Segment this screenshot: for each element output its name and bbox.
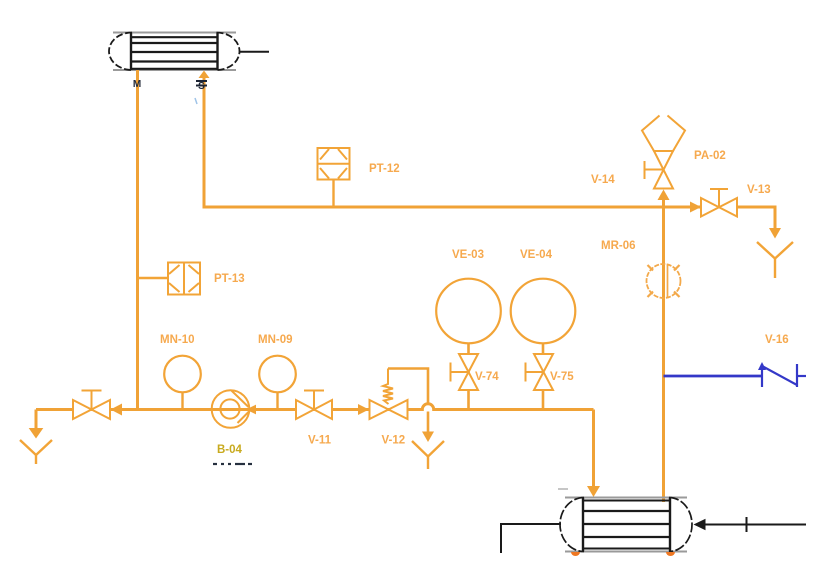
artifact grey dash bbox=[558, 488, 568, 490]
wire orange vertical x=663.5 PA-02 to bottom exchanger bbox=[662, 193, 665, 502]
arrow right into V-12 bbox=[358, 404, 369, 415]
valve PA-02 relief bbox=[642, 116, 685, 189]
drain Y left bbox=[20, 440, 52, 464]
svg-text:V-12: V-12 bbox=[382, 435, 406, 447]
wire orange vertical left x=137 bbox=[136, 70, 139, 410]
arrow left at pump outlet bbox=[246, 405, 256, 415]
instrument PT-13 bbox=[138, 263, 201, 295]
wire MN-10 stem bbox=[181, 392, 183, 409]
vessel VE-03 bbox=[436, 279, 501, 344]
valve V-12 with spring bbox=[370, 369, 408, 420]
valve hand left bbox=[73, 391, 110, 420]
svg-text:V-16: V-16 bbox=[765, 334, 789, 346]
svg-text:M: M bbox=[133, 79, 141, 90]
nameplate dashes under B-04 bbox=[213, 463, 252, 465]
valve V-11 bbox=[296, 391, 332, 420]
wire main bottom line with crossover bump bbox=[36, 404, 594, 410]
svg-text:V-14: V-14 bbox=[591, 174, 615, 186]
arrow down to V-13 drain bbox=[769, 228, 781, 239]
valve V-13 bbox=[701, 189, 737, 217]
arrow down into bottom exchanger bbox=[587, 486, 600, 497]
instrument PT-12 bbox=[318, 148, 350, 207]
wire V-12 bypass loop bbox=[388, 369, 428, 403]
arrow up into top exchanger bbox=[199, 71, 210, 79]
tick on black inlet bbox=[746, 517, 748, 532]
svg-text:MN-10: MN-10 bbox=[160, 334, 195, 346]
arrow right into V-13 bbox=[690, 202, 701, 213]
drain Y below V-13 bbox=[757, 242, 793, 278]
arrow down left drain bbox=[29, 428, 44, 439]
drain Y bypass bbox=[412, 441, 444, 469]
svg-text:PT-12: PT-12 bbox=[369, 163, 400, 175]
wire V-16 blue line bbox=[664, 375, 763, 378]
svg-text:V-74: V-74 bbox=[475, 371, 499, 383]
arrow black into bottom exchanger right bbox=[694, 519, 706, 531]
vessel VE-04 bbox=[511, 279, 576, 344]
svg-text:PT-13: PT-13 bbox=[214, 273, 245, 285]
valve V-75 bbox=[526, 354, 554, 390]
instrument MN-10 bbox=[164, 356, 201, 393]
pump B-04 bbox=[212, 390, 250, 428]
wire top main line y=207 bbox=[204, 206, 701, 209]
arrow down bypass drain bbox=[422, 432, 434, 443]
svg-text:MN-09: MN-09 bbox=[258, 334, 293, 346]
svg-text:V-11: V-11 bbox=[308, 435, 332, 447]
wire black inlet right of bottom exchanger bbox=[704, 524, 806, 526]
wire black outlet right of top exchanger bbox=[240, 51, 269, 53]
valve V-16 blue break symbol bbox=[758, 362, 806, 387]
wire VE-03 stem bbox=[467, 343, 470, 410]
heat exchanger E-bottom bbox=[560, 498, 692, 552]
arrow up into PA-02 bbox=[658, 190, 670, 201]
wire left end corner down bbox=[35, 410, 38, 430]
svg-text:V-75: V-75 bbox=[550, 371, 574, 383]
wire VE-04 stem bbox=[542, 343, 545, 410]
wire orange vertical from S nozzle down to top main line bbox=[204, 73, 205, 207]
svg-text:VE-03: VE-03 bbox=[452, 249, 484, 261]
valve V-74 bbox=[451, 354, 479, 390]
svg-text:B-04: B-04 bbox=[217, 444, 243, 456]
artifact blue dash bbox=[195, 98, 197, 104]
wire corner down to bottom exchanger bbox=[592, 410, 595, 490]
instrument MN-09 bbox=[259, 356, 296, 393]
wire black inlet left of bottom exchanger bbox=[501, 524, 561, 553]
arrow left after valve bbox=[111, 404, 123, 416]
node orange stub right bottom of exchanger bbox=[666, 552, 675, 556]
svg-text:MR-06: MR-06 bbox=[601, 240, 636, 252]
node orange stub left bottom of exchanger bbox=[571, 552, 580, 556]
svg-text:V-13: V-13 bbox=[747, 184, 771, 196]
node S tag bbox=[196, 81, 207, 92]
svg-text:PA-02: PA-02 bbox=[694, 150, 726, 162]
inline device MR-06 bbox=[647, 264, 681, 298]
wire V-13 outlet to drain bbox=[737, 207, 775, 228]
svg-text:VE-04: VE-04 bbox=[520, 249, 553, 261]
wire MN-09 stem bbox=[276, 392, 278, 409]
heat exchanger E-top bbox=[109, 33, 240, 71]
